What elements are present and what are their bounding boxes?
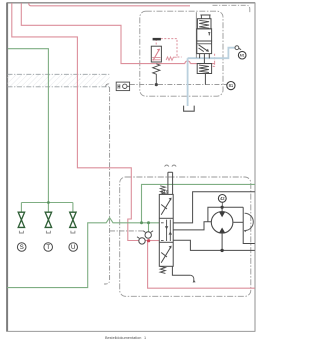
port2 to motor left xyxy=(173,222,211,230)
junction motor bottom port xyxy=(220,249,223,252)
tank symbol xyxy=(184,106,195,112)
motor right port xyxy=(234,221,244,223)
red line R1 to valve port xyxy=(148,240,159,242)
lever line xyxy=(195,12,197,58)
balloon label U xyxy=(69,243,78,252)
port3 to bottom rail xyxy=(173,240,255,250)
svg-text:S: S xyxy=(20,245,24,251)
svg-text:1: 1 xyxy=(144,336,146,340)
balloon M1 xyxy=(238,51,246,59)
red line R1 supply xyxy=(12,3,149,240)
relief drain junction dot xyxy=(155,83,158,86)
outer dash segment top right xyxy=(213,5,250,12)
svg-text:M1: M1 xyxy=(240,54,245,58)
wire: red P-line hop over tank line xyxy=(185,61,190,64)
enclosure bottom (dash-dot rounded box) xyxy=(120,177,251,296)
port1 loop to border xyxy=(173,192,255,223)
coupling T dust cap xyxy=(46,231,50,233)
box B xyxy=(197,41,212,54)
drain with hook xyxy=(172,266,190,275)
small marks above valve xyxy=(165,165,177,167)
green drops to couplings xyxy=(20,203,22,213)
balloon label S xyxy=(17,243,26,252)
enclosure top-right (dash-dot rounded box) xyxy=(140,11,223,96)
check valve CV2 ball xyxy=(139,238,145,244)
green coupling bus xyxy=(21,202,73,204)
coupling box on bulkhead xyxy=(116,82,129,91)
coupling balloons xyxy=(17,243,77,252)
motor 42 bottom port triangle xyxy=(219,228,225,233)
svg-text:42: 42 xyxy=(220,196,225,201)
motor bottom stem xyxy=(221,233,223,250)
motor 42 top port triangle xyxy=(219,212,225,217)
relief valve RV1 seat lines xyxy=(152,58,160,60)
leader line to balloon 81 xyxy=(130,84,227,86)
motor top stem xyxy=(221,207,223,211)
body xyxy=(159,194,173,266)
spring box xyxy=(197,19,211,29)
leader line to check valves xyxy=(110,230,144,232)
bulkhead hatch band xyxy=(8,74,111,284)
bottom spring xyxy=(160,266,165,273)
cyan tank line xyxy=(187,58,189,106)
section 1 arrows xyxy=(161,199,171,215)
hydraulic motor 42 body xyxy=(211,212,233,234)
green riser to top xyxy=(142,184,255,222)
right drop to border xyxy=(243,207,255,243)
pilot line (dashed red) valve V1 right side xyxy=(214,54,216,63)
junction green bus / feed xyxy=(47,201,50,204)
cyan valve outlet line xyxy=(188,48,235,59)
svg-text:319: 319 xyxy=(161,190,169,195)
section 3 arrows xyxy=(161,247,171,263)
junction motor top port xyxy=(221,206,224,209)
label leader xyxy=(221,203,223,208)
relief valve RV1 xyxy=(151,46,161,84)
svg-text:T: T xyxy=(46,245,50,251)
svg-text:U: U xyxy=(71,245,75,251)
page frame xyxy=(7,3,256,332)
green line top-left feed xyxy=(8,49,48,203)
junction red node at check valves xyxy=(147,239,150,242)
bulkhead arc left of box xyxy=(106,84,109,87)
pilot spring (red zigzag) xyxy=(166,57,177,61)
port stubs xyxy=(200,54,210,64)
coupling S dust cap xyxy=(19,231,23,233)
green main net xyxy=(7,218,159,288)
top cap xyxy=(200,15,210,19)
test coupling U symbol xyxy=(70,212,76,227)
svg-text:Bestelldokumentation: Bestelldokumentation xyxy=(105,336,141,340)
svg-text:81: 81 xyxy=(229,83,234,88)
red line R3 top xyxy=(29,3,190,6)
coupling U dust cap xyxy=(71,231,75,233)
junction green main / riser xyxy=(140,221,143,224)
wire: red P-line to valve V1 pilot xyxy=(190,63,214,65)
test coupling S symbol xyxy=(18,212,24,227)
balloon label T xyxy=(44,243,53,252)
motor rotation arrow xyxy=(245,213,254,230)
check valve CV2 seat xyxy=(137,237,139,239)
test coupling T symbol xyxy=(45,212,51,227)
pilot line (dashed red) relief valve RV1 xyxy=(156,39,181,57)
relief valve plug bar xyxy=(153,38,161,41)
pilot line (dashed red) into V1 spring box xyxy=(212,63,215,67)
main valve V1 (pressure compensator) xyxy=(196,12,211,84)
black wiring bottom group xyxy=(173,192,255,251)
relief valve RV1 flow arrow xyxy=(153,49,160,60)
balloon 81 xyxy=(227,82,235,90)
test port M1 xyxy=(235,46,239,50)
check valve CV1 ball xyxy=(145,232,151,238)
bottom spring box xyxy=(197,64,211,74)
box A xyxy=(197,29,212,41)
section 2 center flow lines xyxy=(167,220,171,241)
check valve CV1 seat xyxy=(143,231,153,233)
motor top line xyxy=(208,207,243,222)
relief valve RV1 arrowhead xyxy=(157,49,160,52)
red line R1 down to border xyxy=(148,241,255,289)
pilot cap xyxy=(168,172,173,194)
junction green main / check valve stub xyxy=(147,221,150,224)
drain below spring box xyxy=(204,74,206,85)
motor balloon 42 xyxy=(218,195,226,203)
coupling caps xyxy=(19,231,75,233)
red line R2 to relief valve xyxy=(21,3,185,63)
green stub to check valve xyxy=(148,223,150,232)
top spring xyxy=(160,186,165,195)
